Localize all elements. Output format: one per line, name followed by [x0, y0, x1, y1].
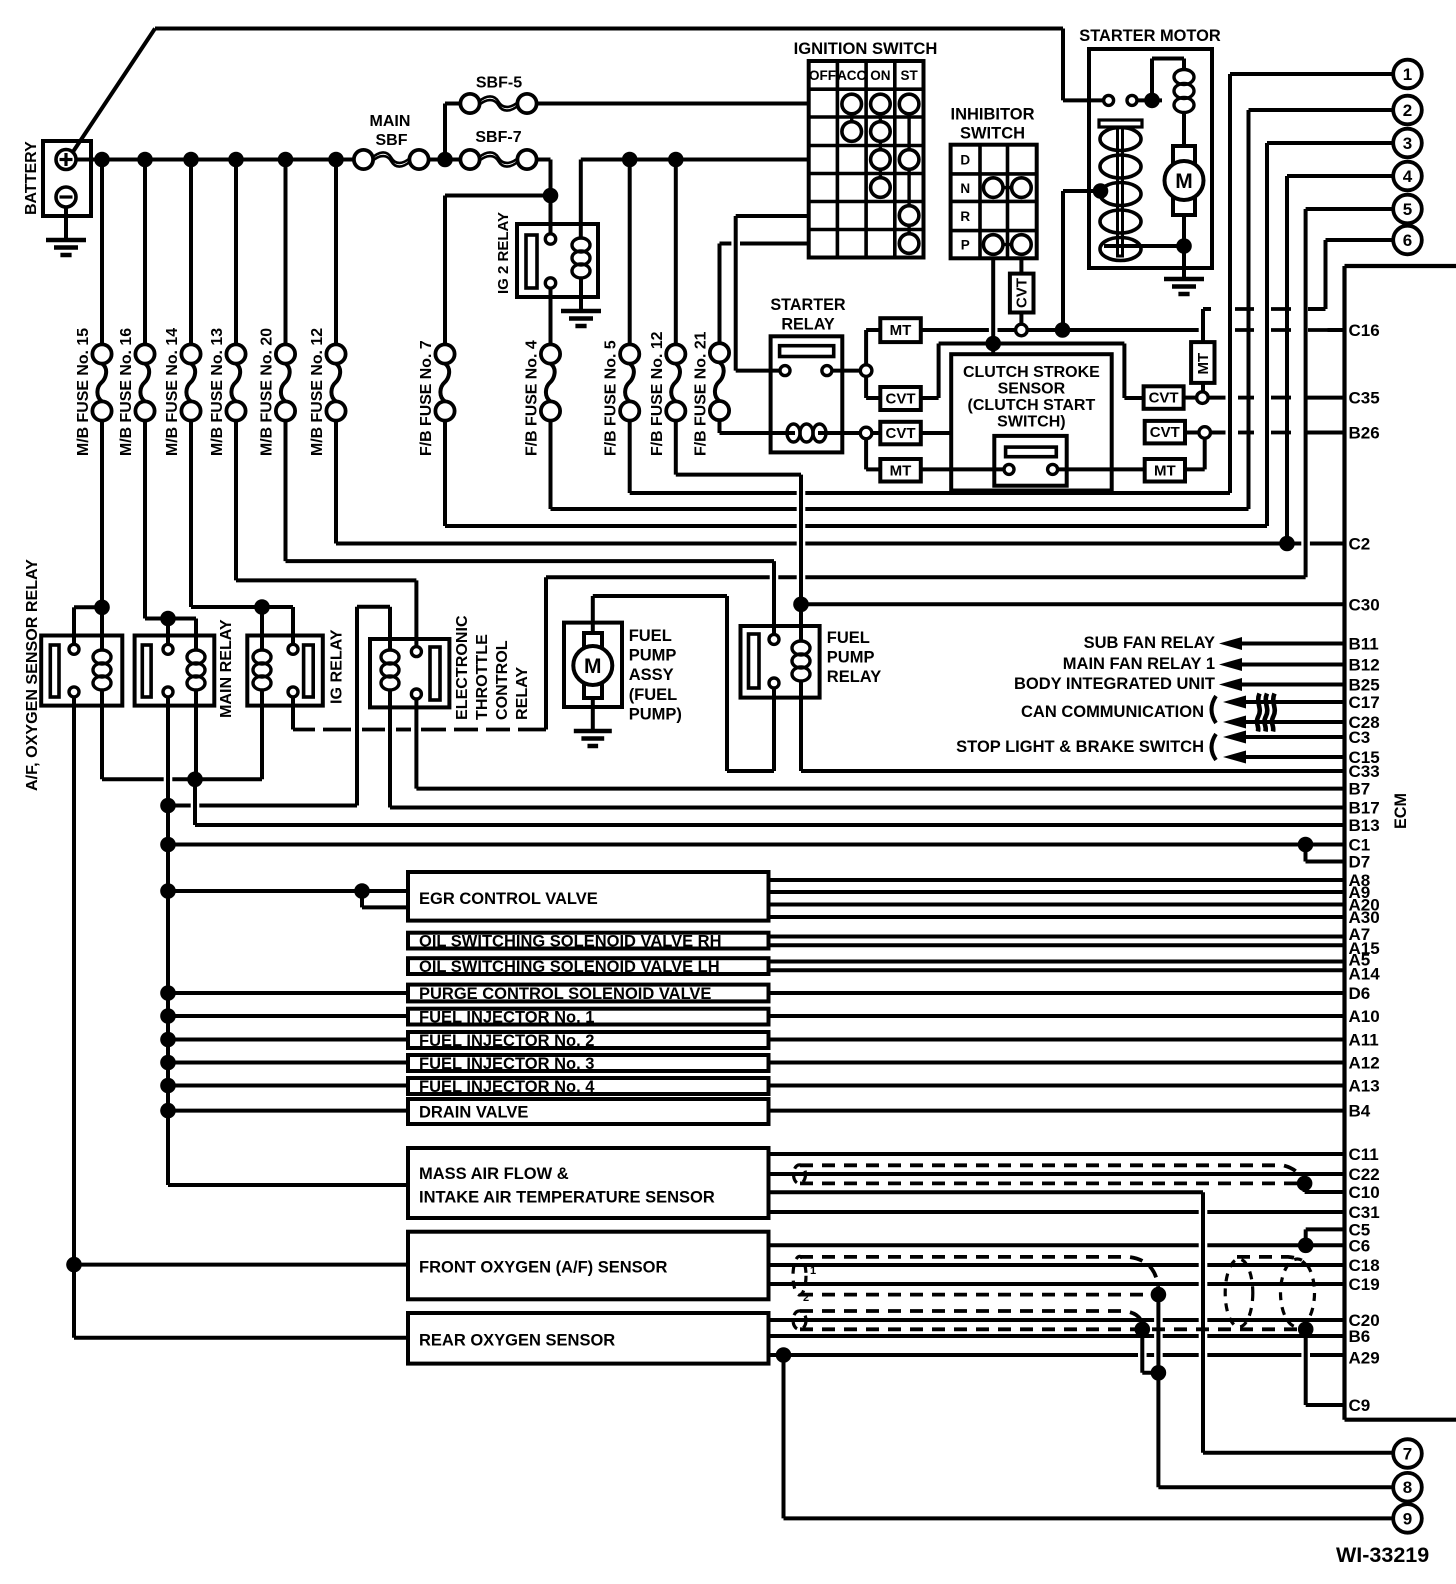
svg-text:1: 1: [1403, 65, 1412, 84]
svg-text:PURGE CONTROL SOLENOID VALVE: PURGE CONTROL SOLENOID VALVE: [419, 985, 711, 1003]
svg-text:EGR CONTROL VALVE: EGR CONTROL VALVE: [419, 890, 598, 908]
svg-text:B4: B4: [1349, 1102, 1371, 1121]
svg-text:2: 2: [1403, 101, 1412, 120]
svg-text:C19: C19: [1349, 1275, 1380, 1294]
svg-text:FUEL: FUEL: [629, 627, 672, 645]
svg-text:PUMP): PUMP): [629, 705, 682, 723]
svg-text:M/B FUSE No. 16: M/B FUSE No. 16: [118, 328, 135, 456]
svg-text:RELAY: RELAY: [827, 668, 881, 686]
svg-text:C33: C33: [1349, 762, 1380, 781]
svg-text:8: 8: [1403, 1478, 1412, 1497]
svg-text:MASS AIR FLOW &: MASS AIR FLOW &: [419, 1165, 569, 1183]
svg-text:IG RELAY: IG RELAY: [328, 629, 346, 704]
svg-text:THROTTLE: THROTTLE: [473, 634, 491, 720]
svg-text:BATTERY: BATTERY: [23, 141, 40, 215]
svg-text:A10: A10: [1349, 1007, 1380, 1026]
svg-text:C6: C6: [1349, 1236, 1371, 1255]
svg-text:A/F, OXYGEN SENSOR RELAY: A/F, OXYGEN SENSOR RELAY: [23, 559, 41, 791]
svg-text:CAN COMMUNICATION: CAN COMMUNICATION: [1021, 703, 1204, 721]
svg-text:C16: C16: [1349, 321, 1380, 340]
svg-text:MAIN: MAIN: [370, 113, 411, 130]
svg-text:MT: MT: [1195, 353, 1212, 375]
svg-text:M/B FUSE No. 20: M/B FUSE No. 20: [259, 328, 276, 456]
svg-text:M: M: [584, 655, 602, 678]
svg-text:7: 7: [1403, 1445, 1412, 1464]
svg-text:D6: D6: [1349, 984, 1371, 1003]
svg-text:1: 1: [810, 1265, 816, 1277]
svg-text:B26: B26: [1349, 424, 1380, 443]
svg-text:STARTER: STARTER: [770, 296, 846, 314]
svg-text:B12: B12: [1349, 656, 1380, 675]
svg-text:M: M: [1175, 170, 1193, 193]
svg-text:C17: C17: [1349, 693, 1380, 712]
svg-text:4: 4: [1403, 167, 1413, 186]
svg-text:IGNITION SWITCH: IGNITION SWITCH: [794, 39, 938, 58]
svg-text:D: D: [960, 153, 970, 168]
svg-text:PUMP: PUMP: [827, 649, 875, 667]
svg-text:BODY INTEGRATED UNIT: BODY INTEGRATED UNIT: [1014, 675, 1215, 693]
svg-text:FRONT OXYGEN (A/F) SENSOR: FRONT OXYGEN (A/F) SENSOR: [419, 1259, 668, 1277]
svg-text:MAIN FAN RELAY 1: MAIN FAN RELAY 1: [1063, 655, 1215, 673]
svg-text:M/B FUSE No. 15: M/B FUSE No. 15: [75, 328, 92, 456]
svg-text:A12: A12: [1349, 1054, 1380, 1073]
svg-text:ELECTRONIC: ELECTRONIC: [453, 615, 471, 720]
svg-text:SBF-7: SBF-7: [475, 129, 521, 146]
svg-text:B13: B13: [1349, 816, 1380, 835]
svg-text:N: N: [960, 181, 970, 196]
svg-text:STOP LIGHT & BRAKE SWITCH: STOP LIGHT & BRAKE SWITCH: [956, 738, 1204, 756]
svg-text:CVT: CVT: [886, 391, 916, 408]
svg-text:B6: B6: [1349, 1327, 1371, 1346]
svg-text:P: P: [961, 238, 970, 253]
svg-text:ST: ST: [900, 68, 918, 83]
svg-text:SUB FAN RELAY: SUB FAN RELAY: [1084, 634, 1215, 652]
svg-text:C35: C35: [1349, 389, 1380, 408]
svg-text:M/B FUSE No. 14: M/B FUSE No. 14: [164, 328, 181, 456]
svg-text:RELAY: RELAY: [781, 316, 835, 334]
svg-text:MT: MT: [890, 463, 912, 480]
svg-text:C2: C2: [1349, 535, 1371, 554]
svg-text:MT: MT: [890, 322, 912, 339]
svg-text:F/B FUSE No. 21: F/B FUSE No. 21: [693, 331, 710, 456]
svg-text:9: 9: [1403, 1509, 1412, 1528]
svg-text:A13: A13: [1349, 1077, 1380, 1096]
svg-text:(FUEL: (FUEL: [629, 686, 678, 704]
svg-text:F/B FUSE No. 7: F/B FUSE No. 7: [418, 340, 435, 456]
svg-text:3: 3: [1403, 134, 1412, 153]
svg-text:INHIBITOR: INHIBITOR: [950, 106, 1034, 124]
svg-text:C22: C22: [1349, 1165, 1380, 1184]
svg-text:MT: MT: [1154, 463, 1176, 480]
svg-text:2: 2: [803, 1292, 809, 1304]
svg-text:OIL SWITCHING SOLENOID VALVE R: OIL SWITCHING SOLENOID VALVE RH: [419, 933, 722, 951]
svg-text:INTAKE AIR TEMPERATURE SENSOR: INTAKE AIR TEMPERATURE SENSOR: [419, 1189, 715, 1207]
svg-text:D7: D7: [1349, 853, 1371, 872]
svg-text:F/B FUSE No. 4: F/B FUSE No. 4: [524, 340, 541, 456]
svg-text:6: 6: [1403, 231, 1412, 250]
svg-text:SBF: SBF: [376, 132, 408, 149]
svg-text:B11: B11: [1349, 635, 1379, 654]
svg-text:B25: B25: [1349, 676, 1380, 695]
svg-text:C10: C10: [1349, 1183, 1380, 1202]
svg-text:A29: A29: [1349, 1349, 1380, 1368]
svg-text:SWITCH): SWITCH): [997, 414, 1065, 431]
svg-text:5: 5: [1403, 200, 1412, 219]
svg-text:CONTROL: CONTROL: [493, 640, 511, 720]
svg-text:R: R: [960, 209, 970, 224]
svg-text:(CLUTCH START: (CLUTCH START: [968, 397, 1096, 414]
svg-text:OFF: OFF: [809, 68, 836, 83]
svg-text:FUEL INJECTOR No. 2: FUEL INJECTOR No. 2: [419, 1032, 594, 1050]
svg-text:CVT: CVT: [1150, 424, 1180, 441]
svg-text:C30: C30: [1349, 595, 1380, 614]
svg-text:CVT: CVT: [886, 425, 916, 442]
svg-text:C11: C11: [1349, 1145, 1379, 1164]
svg-text:A11: A11: [1349, 1031, 1379, 1050]
svg-text:STARTER MOTOR: STARTER MOTOR: [1079, 27, 1221, 45]
svg-text:SENSOR: SENSOR: [998, 381, 1066, 398]
svg-text:FUEL INJECTOR No. 4: FUEL INJECTOR No. 4: [419, 1078, 595, 1096]
svg-text:DRAIN VALVE: DRAIN VALVE: [419, 1104, 528, 1122]
svg-text:FUEL: FUEL: [827, 629, 870, 647]
svg-text:A14: A14: [1349, 965, 1381, 984]
svg-text:SBF-5: SBF-5: [476, 75, 522, 92]
svg-text:REAR OXYGEN SENSOR: REAR OXYGEN SENSOR: [419, 1332, 615, 1350]
svg-text:F/B FUSE No. 5: F/B FUSE No. 5: [603, 340, 620, 456]
svg-text:ECM: ECM: [1392, 793, 1410, 829]
svg-text:B17: B17: [1349, 799, 1380, 818]
svg-text:ASSY: ASSY: [629, 666, 674, 684]
svg-text:C18: C18: [1349, 1256, 1380, 1275]
svg-text:C9: C9: [1349, 1396, 1371, 1415]
svg-text:SWITCH: SWITCH: [960, 125, 1025, 143]
svg-text:B7: B7: [1349, 780, 1371, 799]
svg-text:RELAY: RELAY: [513, 667, 531, 720]
svg-text:C3: C3: [1349, 728, 1371, 747]
svg-text:WI-33219: WI-33219: [1336, 1543, 1429, 1567]
svg-text:C31: C31: [1349, 1203, 1380, 1222]
svg-text:M/B FUSE No. 13: M/B FUSE No. 13: [209, 328, 226, 456]
svg-text:F/B FUSE No. 12: F/B FUSE No. 12: [649, 331, 666, 456]
svg-text:MAIN RELAY: MAIN RELAY: [217, 619, 235, 718]
svg-text:ON: ON: [870, 68, 890, 83]
svg-text:IG 2 RELAY: IG 2 RELAY: [495, 212, 512, 294]
svg-text:FUEL INJECTOR No. 3: FUEL INJECTOR No. 3: [419, 1055, 594, 1073]
svg-text:PUMP: PUMP: [629, 647, 677, 665]
svg-text:CVT: CVT: [1149, 390, 1179, 407]
svg-text:CVT: CVT: [1014, 278, 1031, 308]
svg-text:ACC: ACC: [837, 68, 866, 83]
svg-text:FUEL INJECTOR No. 1: FUEL INJECTOR No. 1: [419, 1009, 594, 1027]
svg-text:OIL SWITCHING SOLENOID VALVE L: OIL SWITCHING SOLENOID VALVE LH: [419, 958, 720, 976]
svg-text:M/B FUSE No. 12: M/B FUSE No. 12: [309, 328, 326, 456]
svg-text:CLUTCH STROKE: CLUTCH STROKE: [963, 364, 1100, 381]
